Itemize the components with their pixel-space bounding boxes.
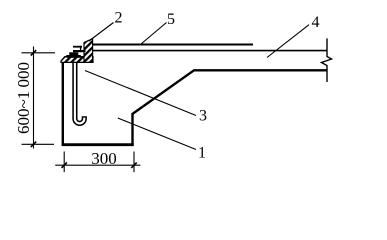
svg-text:3: 3 — [199, 107, 207, 124]
leader for label 2 — [89, 23, 114, 42]
bottom dimension tick right — [131, 163, 136, 168]
clamp plate bar upper — [73, 46, 82, 48]
leader for label 3 — [85, 71, 196, 116]
clamp vertical web — [80, 46, 81, 52]
left dimension tick top — [31, 50, 36, 55]
bottom dimension extension right — [133, 152, 135, 173]
svg-text:4: 4 — [312, 14, 320, 31]
leader for label 4 — [267, 25, 309, 58]
svg-text:300: 300 — [91, 149, 117, 168]
bolt head (black hat) — [69, 52, 78, 55]
left dimension extension line top — [22, 52, 56, 54]
anchor hook 3 (J-shaped strap inside gutter) — [75, 61, 84, 124]
left dimension tick bottom — [31, 142, 36, 147]
left dimension extension line bottom — [22, 143, 55, 145]
svg-text:1: 1 — [198, 144, 206, 161]
coping: horizontal hatched strip on wall top — [61, 57, 93, 63]
bottom dimension line — [55, 164, 140, 166]
angle steel 2: vertical hatched strip — [84, 39, 93, 63]
leader for label 5 — [141, 23, 167, 45]
roof slab top line (label 4 top) — [93, 50, 327, 52]
left dimension line — [33, 47, 35, 149]
svg-text:2: 2 — [115, 9, 123, 26]
concrete gutter outline (label 1 profile) — [62, 62, 327, 147]
svg-text:5: 5 — [167, 11, 175, 28]
bottom dimension extension left — [63, 152, 65, 173]
svg-text:600~1 000: 600~1 000 — [14, 62, 33, 134]
bottom dimension tick left — [62, 163, 67, 168]
clamp plate bar lower — [73, 50, 86, 52]
leader for label 1 — [118, 118, 196, 150]
break symbol at right end of slab — [322, 38, 332, 82]
roofing sheet line (label 5) — [93, 44, 253, 46]
